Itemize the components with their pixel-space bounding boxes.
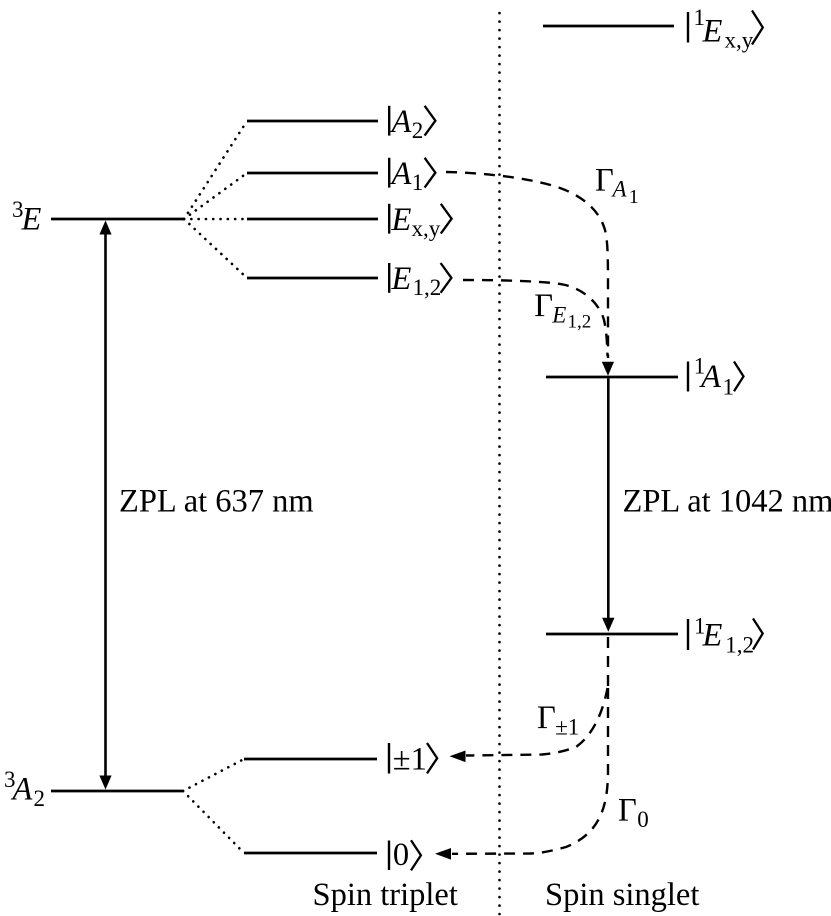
ZPL 1042 arrow line xyxy=(607,378,610,618)
arrowhead Gamma A1/E12 down xyxy=(602,362,614,376)
svg-text:Spin singlet: Spin singlet xyxy=(545,877,699,913)
label ket +-1 xyxy=(389,742,437,778)
svg-text:A: A xyxy=(611,177,628,202)
svg-text:A: A xyxy=(390,156,412,192)
svg-text:0: 0 xyxy=(637,807,649,832)
level 1E12 line xyxy=(546,633,678,636)
label Gamma pm1 xyxy=(537,700,579,740)
ZPL 637 arrowhead down xyxy=(99,776,111,790)
label Gamma A1 xyxy=(595,163,639,209)
level A1 line xyxy=(247,172,378,175)
svg-text:±1: ±1 xyxy=(393,742,427,778)
level 1A1 line xyxy=(546,376,678,379)
dotted separator line between triplet and singlet xyxy=(498,13,501,914)
svg-text:Spin triplet: Spin triplet xyxy=(313,877,458,913)
dotted fan 3A2 to ms0 xyxy=(183,791,244,853)
svg-text:E: E xyxy=(21,202,42,238)
svg-text:±1: ±1 xyxy=(555,715,579,740)
dotted fan 3A2 to ms1 xyxy=(183,759,244,791)
level A2 line xyxy=(247,120,378,123)
svg-text:1,2: 1,2 xyxy=(568,312,592,333)
arrowhead Gamma 0 left xyxy=(435,848,451,860)
label ket E12 xyxy=(389,261,451,300)
dotted fan 3E to A1 xyxy=(184,173,247,219)
svg-text:E: E xyxy=(702,14,723,50)
svg-text:E: E xyxy=(391,202,412,238)
dashed decay curve Gamma 0 xyxy=(452,688,608,854)
label 3E xyxy=(12,197,42,238)
svg-text:A: A xyxy=(699,359,721,395)
svg-text:1: 1 xyxy=(723,375,735,400)
label ket A2 xyxy=(389,104,435,143)
label Gamma 0 xyxy=(618,793,649,833)
label ket 1Exy xyxy=(688,5,763,52)
dashed decay curve Gamma pm1 xyxy=(466,688,608,756)
svg-text:1: 1 xyxy=(412,170,424,195)
svg-text:x,y: x,y xyxy=(412,216,441,241)
svg-text:2: 2 xyxy=(34,786,46,811)
svg-text:ZPL at 1042 nm: ZPL at 1042 nm xyxy=(623,484,831,520)
svg-text:Γ: Γ xyxy=(618,793,637,829)
svg-text:Γ: Γ xyxy=(595,163,614,199)
label ket A1 xyxy=(389,156,435,195)
dashed line below 1E12 xyxy=(607,637,609,688)
ZPL 1042 arrowhead down xyxy=(602,618,614,632)
svg-text:E: E xyxy=(702,618,723,654)
label 3A2 xyxy=(4,767,45,811)
label ket 1A1 xyxy=(688,354,744,400)
level ms +-1 line xyxy=(244,758,377,761)
label ket Exy xyxy=(389,202,451,241)
svg-text:0: 0 xyxy=(393,837,409,873)
level 3A2 line xyxy=(51,790,183,793)
svg-text:x,y: x,y xyxy=(725,28,754,53)
level E12 line xyxy=(247,277,378,280)
level 1Exy line xyxy=(543,25,674,28)
svg-text:A: A xyxy=(11,772,33,808)
level 3E line xyxy=(51,218,184,221)
label ket 1E12 xyxy=(688,614,763,658)
dotted fan 3E to Exy xyxy=(184,218,247,221)
svg-text:ZPL at 637 nm: ZPL at 637 nm xyxy=(119,484,314,520)
svg-text:A: A xyxy=(390,104,412,140)
ZPL 637 arrowhead up xyxy=(99,221,111,235)
svg-text:Γ: Γ xyxy=(534,288,553,324)
svg-text:1: 1 xyxy=(629,186,639,208)
arrowhead Gamma pm1 left xyxy=(450,751,466,763)
dashed decay curve Gamma A1 xyxy=(446,172,608,358)
label Gamma E12 xyxy=(534,288,591,333)
ZPL 637 double arrow line xyxy=(104,233,107,777)
dashed decay curve Gamma E12 xyxy=(463,280,608,356)
level Exy line xyxy=(247,218,378,221)
dotted fan 3E to A2 xyxy=(184,121,247,219)
svg-text:1,2: 1,2 xyxy=(413,275,442,300)
label ket 0 xyxy=(389,837,421,873)
svg-text:1,2: 1,2 xyxy=(725,633,754,658)
level ms 0 line xyxy=(244,852,377,855)
svg-text:E: E xyxy=(391,261,412,297)
svg-text:Γ: Γ xyxy=(537,700,556,736)
dotted fan 3E to E12 xyxy=(184,219,247,278)
svg-text:2: 2 xyxy=(412,118,424,143)
svg-text:E: E xyxy=(551,303,566,328)
